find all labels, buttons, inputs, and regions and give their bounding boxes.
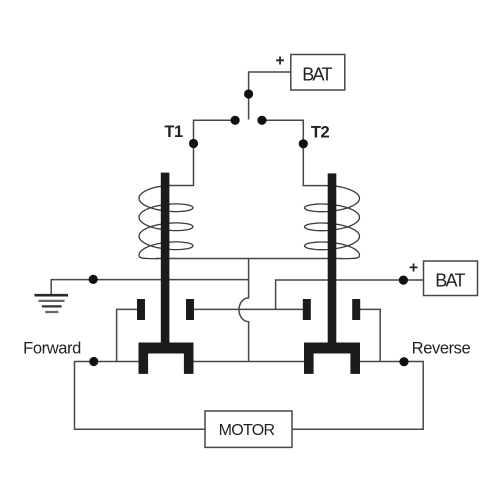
relay K2 armature cross bar [304,343,360,354]
ground symbol [34,295,68,312]
wire bottom right to motor [292,362,423,430]
motor M1 box [205,411,292,447]
wire BAT1 to switch common [249,72,291,120]
svg-text:T1: T1 [164,123,183,141]
svg-text:+: + [409,260,418,277]
relay K1 right leg [184,343,194,374]
relay K2 left contact [303,299,311,320]
svg-text:T2: T2 [311,124,330,142]
relay K1 right contact [186,299,194,320]
coil L2 winding [305,186,360,259]
svg-text:Forward: Forward [23,340,81,358]
svg-text:MOTOR: MOTOR [219,422,275,439]
relay K2 core bar [328,173,337,350]
svg-text:BAT: BAT [435,271,465,291]
coil L1 winding [139,186,193,259]
wire switch left contact to T1 to coil L1 top [166,120,235,185]
wire switch right contact to T2 to coil L2 top [262,120,332,185]
wire ground run [51,280,248,295]
node switch left contact [231,116,240,125]
relay K2 right contact [352,299,360,320]
wire bottom middle [194,361,305,363]
relay K1 core bar [161,173,170,351]
relay K2 left leg [304,343,314,374]
svg-text:+: + [275,53,284,70]
svg-text:Reverse: Reverse [412,340,471,358]
node T1 [189,139,198,148]
node switch right contact [257,116,266,125]
node switch common [244,89,253,98]
wire left relay left contact down [117,309,138,361]
wire coil bottoms link [156,258,342,260]
node ground junction [89,275,98,284]
node Forward [89,357,98,366]
wire bottom left to motor [75,362,206,430]
wire BAT2 run [276,280,424,309]
wire right relay right contact down [360,309,380,361]
relay K1 left leg [139,343,149,374]
wire contact link (left relay NO to right relay NO) [194,308,304,310]
battery BAT2 box [424,261,478,296]
svg-text:BAT: BAT [302,65,332,85]
relay K1 left contact [137,299,145,320]
relay K2 right leg [350,343,360,374]
relay K1 armature cross bar [139,343,194,354]
node Reverse [399,357,408,366]
node T2 [299,139,308,148]
node BAT2 junction [399,276,408,285]
wire center vertical with hop over crossing wire [239,259,249,362]
battery BAT1 box [291,55,345,91]
